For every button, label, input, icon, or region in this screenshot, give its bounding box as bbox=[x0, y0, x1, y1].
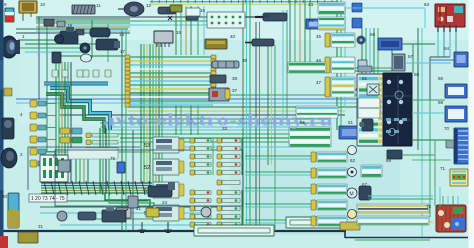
relay 78 bbox=[58, 160, 70, 172]
svg-text:10: 10 bbox=[40, 2, 46, 7]
light strip above montage bbox=[68, 148, 118, 159]
wire extra density top-left bbox=[36, 18, 130, 20]
switch 44 bbox=[318, 17, 345, 30]
svg-text:52: 52 bbox=[144, 165, 150, 171]
svg-text:73: 73 bbox=[52, 154, 58, 159]
red connector bottom-left bbox=[0, 236, 8, 248]
wire feeds to harness rows bbox=[245, 155, 311, 157]
harness row 5 bbox=[311, 216, 316, 226]
svg-text:37: 37 bbox=[232, 88, 238, 93]
ground symbol b bbox=[164, 222, 172, 233]
wire vertical drops right-center bbox=[289, 0, 291, 62]
ground bus bottom bbox=[0, 230, 346, 232]
wire lower horizontal runs bbox=[40, 206, 240, 208]
light band top-left bbox=[36, 18, 132, 28]
connector yellow bottom bbox=[340, 222, 360, 230]
svg-text:69: 69 bbox=[438, 100, 444, 105]
relay 18 small bbox=[76, 29, 84, 35]
heater cable run bbox=[296, 106, 338, 118]
svg-text:39: 39 bbox=[242, 58, 248, 63]
oil sensor oval bbox=[81, 54, 92, 62]
wire loop verticals bbox=[75, 152, 77, 183]
svg-text:42: 42 bbox=[264, 14, 270, 19]
svg-text:61: 61 bbox=[348, 120, 354, 125]
svg-text:M: M bbox=[350, 192, 354, 198]
wire bottom extra bbox=[60, 224, 200, 226]
starter 17 bbox=[96, 39, 118, 50]
relay 15 bbox=[154, 31, 173, 43]
wire vertical long runs center bbox=[242, 0, 244, 231]
ignition coil 10 bbox=[19, 1, 37, 13]
generator 19 bbox=[60, 31, 78, 44]
instrument cluster 60 bbox=[383, 73, 412, 146]
harness enclosure outline bbox=[28, 147, 140, 190]
svg-text:15: 15 bbox=[176, 30, 182, 35]
svg-text:38: 38 bbox=[232, 76, 238, 81]
svg-text:60: 60 bbox=[414, 72, 420, 77]
door actuator 24 bbox=[148, 186, 172, 197]
ground symbol a bbox=[138, 222, 146, 233]
rear window heater bbox=[454, 128, 469, 164]
drill sensor 62r bbox=[362, 119, 373, 131]
relay 11 bbox=[72, 5, 95, 14]
svg-text:11: 11 bbox=[96, 3, 101, 8]
connector strip X1 bbox=[357, 74, 383, 146]
ecu module bottom bbox=[102, 210, 126, 222]
white page margin right bbox=[469, 0, 474, 248]
svg-text:2: 2 bbox=[20, 152, 23, 157]
svg-text:57: 57 bbox=[408, 54, 414, 59]
spark plug 42a bbox=[263, 13, 287, 21]
horn 8 bbox=[57, 21, 65, 27]
connector pins ladder left bbox=[125, 55, 130, 59]
svg-text:16: 16 bbox=[119, 32, 125, 37]
svg-text:17: 17 bbox=[120, 49, 126, 54]
long lamp bar 2 bbox=[286, 217, 344, 228]
column switch 57 bbox=[392, 54, 405, 71]
svg-text:16: 16 bbox=[200, 8, 206, 13]
lamp 28 bbox=[201, 207, 211, 217]
svg-text:44: 44 bbox=[308, 18, 314, 23]
wire bundle vertical mid extension bbox=[99, 128, 101, 152]
relay 53 bbox=[153, 137, 179, 153]
svg-text:71: 71 bbox=[440, 166, 446, 171]
wire staircase bundle cyan bbox=[50, 88, 110, 130]
svg-text:1: 1 bbox=[22, 34, 25, 39]
wire ladder center-left bbox=[128, 56, 213, 58]
svg-text:76: 76 bbox=[110, 156, 116, 161]
wire center extra horizontals bbox=[100, 122, 330, 124]
svg-text:47: 47 bbox=[316, 80, 322, 85]
relay 45 bbox=[325, 33, 330, 47]
wire top-right drop bbox=[424, 8, 426, 28]
svg-text:43: 43 bbox=[308, 2, 314, 7]
horn 7 bbox=[44, 19, 54, 26]
wire vertical runs right bbox=[336, 0, 338, 130]
relay 50 bbox=[153, 205, 179, 221]
connector rows group 1 bbox=[190, 138, 195, 143]
wire feeds instrument strip bbox=[361, 28, 363, 74]
connector 34 bbox=[60, 137, 70, 143]
switch 53 blue bbox=[306, 19, 330, 29]
horn 2 bbox=[1, 148, 17, 168]
wiper motor 16b bbox=[90, 28, 110, 37]
rear harness row 2 bbox=[357, 216, 429, 225]
ignition switch 66 bbox=[378, 38, 402, 50]
wire top green bus bbox=[150, 1, 338, 3]
component 14 bbox=[170, 5, 182, 12]
switch 58 bbox=[361, 165, 382, 177]
wire bundle vertical center (harness B) bbox=[140, 44, 142, 183]
svg-text:9: 9 bbox=[4, 2, 7, 7]
svg-text:40: 40 bbox=[230, 34, 236, 39]
svg-text:33: 33 bbox=[222, 126, 228, 131]
switch 68 bbox=[445, 84, 467, 98]
heater connector 69b bbox=[446, 140, 454, 148]
connector rows under ladder bbox=[86, 133, 91, 138]
motor 13 bbox=[158, 7, 176, 14]
icon motor M bbox=[347, 188, 357, 198]
svg-text:46: 46 bbox=[316, 58, 322, 63]
svg-text:72: 72 bbox=[426, 204, 432, 209]
connector column 67-71 bbox=[30, 100, 37, 107]
harness row 4 bbox=[311, 200, 316, 210]
svg-text:45: 45 bbox=[316, 34, 322, 39]
svg-text:68: 68 bbox=[438, 76, 444, 81]
wire central horizontal band bbox=[60, 94, 362, 96]
harness row 2 bbox=[311, 168, 316, 178]
fuse box pin numbers bbox=[29, 194, 67, 202]
battery 9 bbox=[5, 8, 14, 22]
switch 21 bbox=[116, 208, 131, 218]
component 16 bbox=[186, 13, 198, 20]
wire bundle vertical left (harness A) bbox=[55, 62, 57, 183]
fan motor 12 bbox=[124, 2, 144, 16]
svg-text:31: 31 bbox=[38, 224, 44, 229]
module 40 bbox=[205, 39, 227, 49]
sensor 27b bbox=[78, 212, 96, 220]
blue feed band montage bbox=[44, 82, 108, 86]
svg-text:21: 21 bbox=[136, 206, 142, 211]
relay box open top bbox=[207, 12, 245, 28]
svg-text:63: 63 bbox=[424, 2, 430, 7]
wire mid runs bbox=[100, 129, 300, 131]
wire top dark runs bbox=[36, 16, 240, 18]
washer reservoir 30 bbox=[8, 193, 19, 228]
wiper motor 4 bbox=[2, 118, 14, 139]
relay 59 top bbox=[358, 66, 372, 72]
icon lighter bbox=[348, 168, 357, 177]
switch 43 bbox=[318, 2, 345, 14]
antenna 39 bbox=[212, 61, 239, 68]
svg-text:64: 64 bbox=[444, 46, 450, 51]
svg-text:55: 55 bbox=[300, 120, 306, 125]
relay 52 bbox=[153, 159, 179, 175]
svg-text:53: 53 bbox=[144, 143, 150, 149]
top bus connector ticks bbox=[152, 0, 332, 3]
wire connector feed lines bbox=[241, 138, 243, 175]
sensor 26 bbox=[57, 211, 67, 221]
svg-text:66: 66 bbox=[370, 32, 376, 37]
connector pins ladder right bbox=[211, 55, 216, 59]
cable block 55 bbox=[289, 127, 331, 147]
sensor 67 bbox=[359, 186, 371, 200]
wire bundle elbow down-right bbox=[105, 193, 150, 207]
connector strip mid window bbox=[358, 98, 380, 118]
svg-text:24: 24 bbox=[162, 200, 168, 205]
distributor bbox=[80, 43, 90, 53]
sensor 38 bbox=[210, 75, 226, 83]
wire vertical mid drops bbox=[175, 6, 177, 55]
icon lamp bbox=[348, 210, 357, 219]
bundle top connectors bbox=[52, 70, 58, 77]
svg-text:59: 59 bbox=[386, 158, 392, 163]
connector 64 bbox=[454, 52, 468, 67]
label box top bbox=[186, 8, 200, 16]
svg-text:13: 13 bbox=[166, 8, 172, 13]
side marker lamp bbox=[4, 88, 12, 96]
hazard switch 47 bbox=[325, 77, 330, 97]
wire staircase bundle green bbox=[46, 94, 104, 136]
svg-text:61: 61 bbox=[362, 76, 368, 81]
sensor 61 bbox=[367, 84, 379, 95]
svg-text:62: 62 bbox=[350, 158, 356, 163]
cluster lower connector bbox=[387, 150, 402, 159]
harness row 1 bbox=[311, 152, 316, 162]
wire bundle horizontal lower (harness C) bbox=[41, 182, 152, 184]
svg-text:avto-elektro-shemy.ru: avto-elektro-shemy.ru bbox=[103, 111, 333, 130]
relay 46 bbox=[325, 57, 330, 73]
wire bundle vertical mid-low bbox=[99, 150, 101, 193]
tail lamp feed wires bbox=[442, 196, 444, 205]
svg-text:12: 12 bbox=[146, 3, 152, 8]
long lamp bar 1 bbox=[194, 225, 274, 236]
tail lamp cluster bbox=[436, 205, 466, 232]
instrument block 63 (red) bbox=[435, 4, 465, 27]
washer pump 31 bbox=[18, 232, 38, 243]
sensor 37 bbox=[209, 88, 229, 101]
harness row 3 bbox=[311, 184, 316, 194]
svg-text:19: 19 bbox=[67, 23, 73, 28]
license lamp block bbox=[450, 169, 468, 186]
wire vertical runs left bbox=[38, 17, 40, 100]
headlamp left bbox=[1, 36, 18, 58]
connector row single bbox=[217, 180, 222, 185]
svg-text:1 20 73 74 - 75: 1 20 73 74 - 75 bbox=[31, 196, 65, 202]
switch column icons bbox=[339, 126, 361, 139]
relay 76 bbox=[117, 162, 125, 173]
svg-text:30: 30 bbox=[2, 194, 8, 199]
switch 27 bbox=[146, 208, 159, 217]
rear harness row 1 bbox=[357, 204, 429, 213]
left edge harness strip bbox=[0, 0, 4, 248]
svg-text:67: 67 bbox=[362, 182, 368, 187]
svg-text:70: 70 bbox=[444, 126, 450, 131]
wire right feeds bbox=[402, 43, 435, 45]
coil cylinder bbox=[52, 52, 61, 63]
svg-text:4: 4 bbox=[20, 112, 23, 117]
switch 22 bbox=[128, 196, 138, 208]
icon clock bbox=[348, 146, 357, 155]
fuse box (montage block) bbox=[40, 155, 68, 182]
switch 69 bbox=[445, 106, 467, 122]
wires from instrument block bbox=[437, 32, 439, 57]
spark plug 42b bbox=[252, 39, 274, 46]
connector rows group 2 bbox=[190, 190, 195, 195]
relay 51 bbox=[153, 182, 179, 198]
hatched cable run bbox=[288, 62, 326, 73]
connector 62 bbox=[60, 128, 70, 134]
